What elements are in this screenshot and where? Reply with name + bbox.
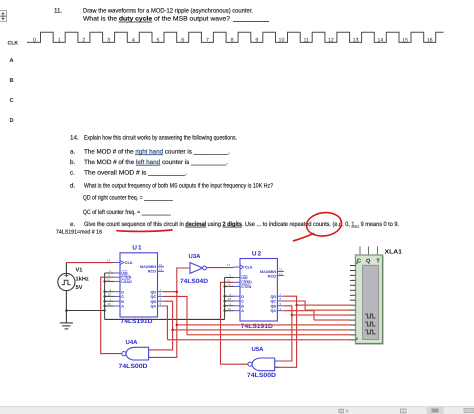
svg-text:15: 15	[108, 302, 112, 306]
svg-text:CLK: CLK	[125, 261, 133, 265]
red pen ellipse annotation	[294, 211, 343, 241]
svg-text:a.: a.	[70, 148, 75, 155]
svg-text:Draw the waveforms for a MOD-1: Draw the waveforms for a MOD-12 ripple (…	[83, 7, 253, 14]
svg-text:T: T	[376, 259, 380, 265]
word move-anchor icon top left	[0, 11, 7, 22]
node junction V1 ground tap	[65, 309, 68, 312]
svg-text:b.: b.	[70, 159, 75, 166]
svg-text:U1: U1	[132, 245, 142, 252]
svg-text:MAX/MIN: MAX/MIN	[140, 265, 156, 269]
svg-text:RCO: RCO	[148, 270, 156, 274]
svg-text:QD: QD	[270, 295, 276, 299]
svg-text:A: A	[241, 309, 244, 313]
svg-text:A: A	[10, 58, 14, 64]
svg-text:QC: QC	[270, 300, 276, 304]
wire U2 ground bus vertical	[225, 278, 234, 320]
nand gate U4A 74LS00	[122, 347, 153, 360]
node junction U1 QD tap	[176, 290, 179, 293]
svg-text:12: 12	[159, 263, 163, 267]
svg-text:QB: QB	[270, 304, 276, 308]
svg-text:A: A	[121, 305, 124, 309]
svg-text:QD: QD	[150, 290, 156, 294]
wire U4A output to U1 load pin	[101, 277, 122, 353]
wire U1 QB line to XLA1 ch10	[173, 329, 350, 331]
ground	[60, 323, 73, 329]
wire U1 QA tap down	[164, 306, 167, 340]
svg-text:15: 15	[402, 37, 408, 43]
svg-text:7: 7	[206, 37, 209, 43]
wire U3A output to U2 CLK	[206, 267, 233, 269]
wire U1 QA line to XLA1 ch12	[167, 339, 350, 341]
svg-text:What is the output frequency o: What is the output frequency of both MS …	[84, 182, 273, 189]
svg-text:13: 13	[159, 268, 163, 272]
wire V1 to U1 CLK	[66, 262, 113, 264]
svg-text:2: 2	[82, 37, 85, 43]
svg-text:CLK: CLK	[8, 40, 19, 46]
op-amp U2 74LS191 counter chip	[227, 259, 284, 322]
node junction U2 QB analyzer tap	[291, 314, 294, 317]
svg-text:1kHz: 1kHz	[76, 276, 89, 283]
wire V1 top stub	[65, 263, 67, 274]
wire U2 QB jog to analyzer and U5A	[275, 306, 292, 361]
svg-text:QC: QC	[150, 295, 156, 299]
svg-text:14: 14	[377, 37, 383, 43]
wire U1 QB tap down	[149, 301, 173, 350]
question 14 text block	[56, 134, 399, 235]
svg-text:14.: 14.	[70, 134, 79, 141]
svg-text:5: 5	[157, 37, 160, 43]
node junction U2 QD analyzer tap	[295, 304, 298, 307]
svg-text:Q: Q	[366, 259, 371, 265]
op-amp U1 74LS191 counter chip	[107, 253, 164, 317]
wire U1 QD line to XLA1 ch9	[177, 324, 350, 326]
svg-text:9: 9	[255, 37, 258, 43]
node junctions on U1 bus	[103, 280, 105, 312]
svg-text:CLK: CLK	[245, 266, 253, 270]
svg-text:11.: 11.	[54, 7, 62, 14]
svg-text:d.: d.	[70, 182, 75, 189]
svg-text:16: 16	[427, 37, 433, 43]
inverter U3A 74LS04	[190, 263, 206, 274]
svg-text:U3A: U3A	[189, 253, 202, 260]
wire U1 QD to U3A input and taps	[149, 268, 190, 357]
wire U2 QC jog to analyzer	[284, 301, 305, 310]
svg-text:B: B	[241, 304, 244, 308]
svg-text:10: 10	[279, 37, 285, 43]
wire U5A output to U2 load pin	[221, 282, 249, 364]
node junction U1 QD analyzer tap	[176, 324, 179, 327]
svg-text:0: 0	[33, 37, 36, 43]
svg-text:RCO: RCO	[268, 274, 276, 278]
svg-text:74LS191D: 74LS191D	[121, 318, 154, 325]
svg-text:13: 13	[279, 272, 283, 276]
svg-text:11: 11	[107, 278, 110, 282]
wire U2 QB line to XLA1 ch7	[292, 314, 350, 316]
svg-text:6: 6	[181, 37, 184, 43]
svg-text:c.: c.	[70, 169, 75, 176]
svg-text:U5A: U5A	[252, 346, 265, 353]
wire U2 QD line to XLA1 ch5	[297, 304, 350, 306]
svg-text:D: D	[241, 295, 244, 299]
svg-text:13: 13	[353, 37, 359, 43]
wire U2 QC line to XLA1 ch6	[305, 309, 350, 311]
svg-text:Give the count sequence of thi: Give the count sequence of this circuit …	[84, 221, 399, 228]
svg-text:QC of left counter freq. = ___: QC of left counter freq. = __________	[83, 209, 171, 216]
svg-text:74LS04D: 74LS04D	[180, 278, 209, 285]
red pen underline annotation	[117, 230, 172, 231]
wire CLK waveform	[27, 32, 444, 42]
wire ground rail to U1 bus	[66, 310, 104, 312]
svg-text:11: 11	[303, 37, 309, 43]
svg-text:3: 3	[107, 37, 110, 43]
svg-text:U4A: U4A	[126, 339, 139, 346]
svg-text:QA: QA	[150, 305, 156, 309]
svg-text:C: C	[241, 300, 244, 304]
status bar	[0, 407, 474, 414]
svg-text:15: 15	[228, 307, 232, 311]
svg-text:QA: QA	[270, 309, 276, 313]
svg-text:D: D	[121, 290, 124, 294]
wire U1 QC line to XLA1 ch11	[187, 334, 350, 336]
svg-text:The MOD # of the left hand cou: The MOD # of the left hand counter is __…	[84, 159, 228, 166]
svg-text:QB: QB	[150, 300, 156, 304]
svg-text:12: 12	[328, 37, 334, 43]
svg-text:Explain how this circuit works: Explain how this circuit works by answer…	[84, 134, 237, 141]
wire U1 ground bus vertical	[105, 273, 114, 319]
svg-text:1: 1	[58, 37, 61, 43]
voltage source V1	[58, 273, 75, 290]
svg-text:QD of right counter freq. = __: QD of right counter freq. = __________	[83, 195, 173, 202]
svg-text:74LS00D: 74LS00D	[247, 372, 277, 379]
svg-text:4: 4	[132, 37, 135, 43]
svg-text:The MOD # of the right hand co: The MOD # of the right hand counter is _…	[84, 148, 230, 155]
node junction U1 QB analyzer tap	[171, 329, 174, 332]
wire ground bus U1 to U2 (bottom rail)	[105, 318, 225, 320]
svg-text:C: C	[121, 295, 124, 299]
svg-text:8: 8	[231, 37, 234, 43]
svg-text:D: D	[10, 118, 14, 124]
svg-text:e.: e.	[70, 221, 75, 228]
nand gate U5A 74LS00	[248, 358, 279, 371]
logic analyzer XLA1	[350, 247, 383, 344]
svg-text:B: B	[10, 78, 14, 84]
wire V1 bottom to ground	[65, 291, 67, 323]
svg-text:C: C	[357, 259, 361, 265]
svg-text:What is the duty cycle of the: What is the duty cycle of the MSB output…	[83, 16, 231, 23]
svg-text:5V: 5V	[76, 285, 83, 291]
svg-text:74LS191D: 74LS191D	[241, 323, 274, 330]
svg-text:74LS00D: 74LS00D	[119, 363, 149, 370]
svg-text:The overall MOD # is _________: The overall MOD # is __________.	[84, 169, 187, 176]
svg-text:14: 14	[227, 263, 231, 267]
svg-text:MAX/MIN: MAX/MIN	[260, 270, 276, 274]
svg-text:U/D: U/D	[241, 276, 248, 280]
clock cycle numbers 0-16	[33, 37, 433, 43]
wire U2 QA line to XLA1 ch8	[314, 319, 350, 321]
wire U2 QD jog to analyzer and U5A	[275, 296, 297, 367]
svg-text:LOAD: LOAD	[121, 280, 132, 284]
svg-text:10: 10	[228, 297, 232, 301]
wire U2 QA jog to analyzer	[284, 311, 314, 320]
svg-text:B: B	[121, 300, 124, 304]
svg-text:XLA1: XLA1	[385, 249, 403, 256]
svg-text:V1: V1	[76, 268, 83, 274]
V1 value labels	[76, 268, 89, 291]
svg-text:12: 12	[279, 268, 283, 272]
node junctions on U2 bus	[223, 285, 225, 312]
svg-text:C: C	[10, 98, 14, 104]
svg-text:14: 14	[107, 259, 111, 263]
svg-text:10: 10	[108, 293, 112, 297]
svg-text:CTEN: CTEN	[241, 285, 251, 289]
svg-text:74LS191=mod # 16: 74LS191=mod # 16	[56, 228, 102, 235]
svg-text:U2: U2	[252, 250, 262, 257]
blank line after wave?	[233, 21, 269, 23]
question 11 text	[54, 7, 253, 22]
wire U1 QC tap down	[164, 296, 187, 334]
